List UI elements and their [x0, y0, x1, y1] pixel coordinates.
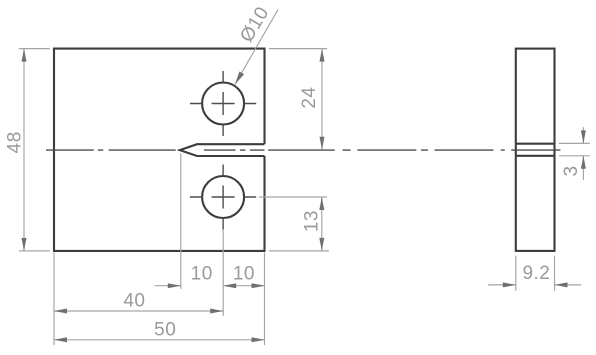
dimension 40 line	[54, 310, 223, 312]
svg-text:9.2: 9.2	[522, 263, 550, 284]
dimension 50 line	[54, 339, 265, 341]
center mark of hole C1	[190, 71, 256, 136]
svg-text:10: 10	[191, 263, 213, 284]
extension line from notch tip (for 10 dim)	[180, 154, 182, 289]
svg-text:40: 40	[123, 291, 145, 312]
front view plate outline	[54, 49, 265, 251]
horizontal centerline (dash-dot through notch axis)	[46, 149, 494, 151]
dimension 3 extension lines	[559, 143, 590, 155]
center mark of hole C2	[190, 165, 256, 230]
svg-text:50: 50	[154, 319, 176, 340]
dimension 10 (right) arrows	[223, 283, 264, 288]
hole C1 (upper, diam 10)	[202, 83, 244, 125]
dimension 24 line	[321, 49, 323, 150]
side view slot edges	[516, 144, 555, 156]
dimension 10 (left) outside arrow and leader	[155, 285, 181, 287]
svg-text:13: 13	[302, 210, 323, 232]
dimension 13 extension lines	[259, 197, 329, 251]
dimension 50 arrows	[54, 337, 265, 342]
svg-text:10: 10	[233, 263, 255, 284]
leader arrow	[235, 72, 244, 85]
dimension 24 extension line (top)	[269, 48, 327, 50]
dimension 13 line	[321, 197, 323, 251]
dimension 13 arrows	[319, 197, 324, 251]
extension line from hole axis (for 10 and 40 dims)	[222, 229, 224, 316]
extension line from right edge (for 10 and 50 dims)	[264, 252, 266, 345]
dimension 9.2 leaders with outside arrows	[488, 284, 581, 286]
notch (edge slot with V tip)	[180, 144, 265, 156]
dimension 40 arrows	[54, 309, 223, 314]
svg-text:24: 24	[299, 87, 320, 109]
svg-text:48: 48	[5, 131, 26, 153]
dimension 48 extension lines	[19, 49, 50, 251]
dimension 48 line	[23, 49, 25, 251]
dimension 24 arrows	[320, 49, 325, 150]
dimension 9.2 extension lines	[516, 256, 555, 291]
dimension 48 arrows	[22, 49, 27, 251]
hole C2 (lower, diam 10)	[202, 176, 244, 218]
extension line left edge (for 40 and 50 dims)	[53, 252, 55, 345]
leader line for diameter callout	[235, 9, 278, 84]
svg-text:3: 3	[561, 165, 582, 176]
side view outline	[516, 49, 555, 251]
side view centerline	[501, 149, 561, 151]
dimension 10 (right) line	[223, 285, 264, 287]
dimension 3 leaders with outside arrows	[582, 127, 584, 180]
